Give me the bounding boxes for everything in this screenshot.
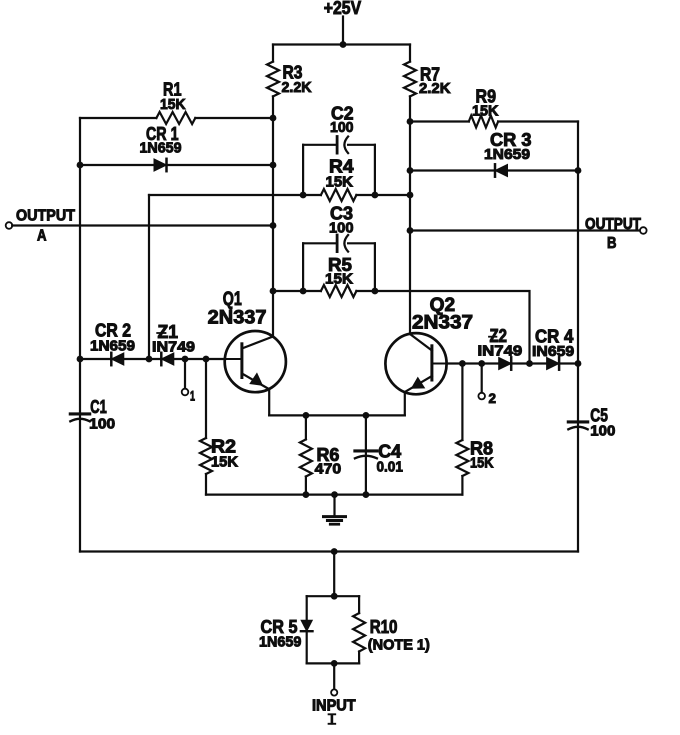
wire CR2 left lead — [80, 358, 111, 360]
resistor R6 — [300, 439, 341, 477]
wire CR5 lower lead — [306, 631, 308, 663]
svg-text:1N659: 1N659 — [90, 338, 135, 355]
svg-text:15K: 15K — [470, 455, 494, 472]
wire CR4 right lead — [559, 362, 578, 364]
wire CR5 upper lead — [306, 596, 308, 620]
svg-text:R10: R10 — [370, 617, 398, 637]
diode CR2 1N659 — [90, 320, 135, 365]
terminal 2 — [478, 364, 496, 406]
node R4-collector junction — [407, 192, 414, 199]
wire R4 right lead — [356, 194, 410, 196]
wire emitter bus — [269, 414, 405, 416]
capacitor C2 100 — [303, 104, 375, 196]
wire R4 left lead — [149, 194, 321, 196]
wire CR5/R10 box bottom — [307, 662, 359, 664]
node CR1-collector junction — [270, 162, 277, 169]
node branch junction (R5 column) — [526, 360, 533, 367]
resistor R3 — [267, 62, 312, 97]
svg-text:2: 2 — [489, 390, 497, 406]
ground — [324, 495, 346, 525]
wire R7 top stub — [409, 45, 411, 62]
node R5-collector junction — [270, 288, 277, 295]
wire R8 column upper — [461, 364, 463, 441]
resistor R8 — [456, 439, 493, 476]
wire R8 column lower — [461, 476, 463, 495]
svg-text:1N659: 1N659 — [484, 146, 530, 163]
wire Q2 emitter lead — [404, 392, 406, 415]
wire R4 branch column — [148, 195, 150, 359]
svg-text:1N659: 1N659 — [140, 139, 182, 156]
node R2/R6 bottom junction — [303, 491, 310, 498]
wire R2 column lower — [205, 474, 207, 495]
node R1-collector junction — [270, 115, 277, 122]
wire CR5/R10 box top — [307, 595, 359, 597]
resistor R2 — [200, 436, 238, 474]
wire R1 left lead — [80, 117, 156, 119]
wire CR3 left lead — [410, 169, 495, 171]
zener Z1 1N749 — [152, 322, 195, 365]
svg-text:C1: C1 — [90, 397, 107, 417]
svg-text:15K: 15K — [211, 453, 238, 470]
capacitor C3 100 — [303, 203, 375, 291]
svg-text:15K: 15K — [472, 102, 499, 119]
svg-text:100: 100 — [89, 415, 115, 432]
node C3 right junction — [372, 288, 379, 295]
wire Q2 base to Z2 — [447, 362, 499, 364]
wire right outer column — [577, 122, 579, 552]
capacitor C1 100 — [70, 397, 115, 433]
node CR1 left junction — [77, 162, 84, 169]
svg-text:15K: 15K — [160, 96, 186, 113]
svg-text:0.01: 0.01 — [377, 458, 403, 475]
node ground junction — [331, 491, 338, 498]
diode CR4 1N659 — [532, 327, 574, 370]
wire R5 right lead and branch column — [356, 291, 529, 364]
svg-text:100: 100 — [329, 220, 354, 237]
wire R9 left lead — [410, 120, 469, 122]
svg-text:B: B — [607, 235, 617, 252]
capacitor C5 100 — [568, 405, 615, 439]
node CR2 left junction — [77, 356, 84, 363]
svg-text:OUTPUT: OUTPUT — [16, 208, 75, 225]
node branch-base junction (R4 column) — [146, 356, 153, 363]
node input stem junction — [331, 548, 338, 555]
node terminal-2 junction — [478, 360, 485, 367]
node R2 top junction — [203, 356, 210, 363]
node top rail junction — [340, 41, 347, 48]
wire R1 right lead — [195, 117, 273, 119]
wire top rail — [273, 43, 410, 45]
wire R6 lower lead — [305, 477, 307, 495]
svg-text:OUTPUT: OUTPUT — [585, 216, 641, 233]
resistor R4 — [321, 157, 357, 202]
terminal 1 — [182, 359, 195, 404]
node CR4 right junction — [575, 360, 582, 367]
svg-text:IN659: IN659 — [532, 343, 574, 360]
wire input stem upper — [333, 552, 335, 597]
svg-text:2.2K: 2.2K — [282, 79, 312, 96]
wire R9 right lead — [498, 120, 578, 122]
node R6 top junction — [303, 412, 310, 419]
capacitor C4 0.01 — [355, 415, 403, 494]
wire R6 upper lead — [305, 415, 307, 439]
svg-text:+25V: +25V — [324, 0, 361, 18]
terminal OUTPUT B — [410, 216, 647, 252]
resistor R7 — [404, 62, 451, 97]
wire bottom node — [206, 494, 462, 496]
wire left outer column — [79, 118, 81, 552]
wire R2 column upper — [205, 359, 207, 438]
node CR5/R10 bottom junction — [331, 660, 338, 667]
svg-text:2N337: 2N337 — [412, 313, 473, 334]
node OUTPUT B junction — [407, 227, 414, 234]
wire right collector column (Q2 collector node) — [409, 96, 411, 334]
node C4 top junction — [363, 412, 370, 419]
node R9-collector junction — [407, 118, 414, 125]
wire R3 top stub — [272, 45, 274, 62]
node C2 right junction — [372, 192, 379, 199]
svg-text:INPUT: INPUT — [312, 698, 356, 715]
node R8 top junction — [459, 360, 466, 367]
node CR5/R10 top junction — [331, 593, 338, 600]
wire R10 lower lead — [358, 652, 360, 664]
diode CR3 1N659 — [484, 130, 532, 177]
wire left collector column (Q1 collector node) — [272, 96, 274, 336]
zener Z2 1N749 — [478, 326, 523, 370]
wire Z1 to Q1 base — [173, 358, 225, 360]
terminal INPUT — [312, 663, 356, 723]
svg-text:470: 470 — [315, 460, 342, 477]
transistor Q1 2N337 — [208, 289, 286, 392]
wire CR2-Z1 segment — [123, 358, 161, 360]
resistor R9 — [469, 86, 499, 127]
svg-text:(NOTE 1): (NOTE 1) — [368, 637, 430, 654]
svg-text:1: 1 — [190, 388, 195, 404]
svg-text:2N337: 2N337 — [208, 307, 267, 328]
svg-text:15K: 15K — [325, 271, 353, 288]
wire CR3 right lead — [507, 169, 578, 171]
wire CR1 left lead — [80, 164, 154, 166]
transistor Q2 2N337 — [385, 295, 473, 395]
svg-text:2.2K: 2.2K — [419, 80, 451, 97]
resistor R5 — [321, 255, 357, 297]
wire CR1 right lead — [166, 164, 273, 166]
svg-text:IN749: IN749 — [152, 339, 195, 356]
node C4 bottom junction — [363, 491, 370, 498]
diode CR5 1N659 — [259, 617, 313, 650]
svg-text:100: 100 — [330, 119, 354, 136]
terminal OUTPUT A — [6, 208, 273, 245]
svg-text:A: A — [37, 227, 47, 244]
resistor R10 — [353, 613, 430, 653]
svg-text:1N659: 1N659 — [259, 633, 301, 650]
node terminal-1 junction — [182, 356, 189, 363]
svg-text:100: 100 — [590, 423, 615, 440]
wire Z2-CR4 segment — [511, 362, 547, 364]
wire Q1 emitter lead — [268, 389, 270, 415]
wire R10 upper lead — [358, 596, 360, 613]
node CR3 right junction — [575, 167, 582, 174]
node OUTPUT A junction — [270, 222, 277, 229]
svg-text:15K: 15K — [326, 174, 354, 191]
power +25V supply — [324, 0, 361, 45]
diode CR1 1N659 — [140, 124, 182, 171]
node CR3-collector junction — [407, 167, 414, 174]
svg-text:IN749: IN749 — [478, 342, 523, 359]
resistor R1 — [156, 80, 195, 125]
wire long bottom bus — [80, 550, 578, 552]
node C3 left junction — [300, 288, 307, 295]
node C2 left junction — [300, 192, 307, 199]
wire R5 left lead — [273, 290, 321, 292]
